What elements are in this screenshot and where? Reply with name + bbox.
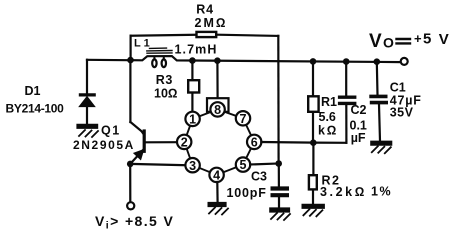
- svg-text:2: 2: [181, 136, 188, 150]
- inductor L1: [147, 48, 172, 67]
- svg-text:3: 3: [189, 159, 196, 173]
- ground below C3: [269, 210, 290, 220]
- pin 5: [236, 157, 250, 172]
- label Vi > +8.5 V: [95, 213, 174, 232]
- wire main top rail from D1 corner to output terminal: [87, 56, 401, 62]
- wire R4 loop top left: [131, 34, 196, 37]
- pin 2: [177, 135, 191, 150]
- svg-text:µF: µF: [351, 131, 366, 145]
- value 3.2k ohm 1%: [320, 184, 392, 199]
- svg-text:5: 5: [423, 31, 431, 48]
- label Q1: [101, 124, 121, 138]
- pin 7: [236, 111, 250, 126]
- svg-text:Q1: Q1: [101, 124, 121, 138]
- svg-text:3.2kΩ: 3.2kΩ: [320, 185, 367, 199]
- svg-text:L 1: L 1: [134, 38, 150, 50]
- label L1: [134, 38, 150, 50]
- value 2M ohm: [195, 16, 228, 30]
- op-amp U1 ring: [184, 109, 254, 174]
- svg-text:V: V: [369, 31, 382, 52]
- wire emitter node down to Vi terminal: [129, 164, 131, 202]
- wire rail to R1: [312, 61, 314, 96]
- node A junction dot rail/R4/collector: [127, 57, 134, 64]
- pin 6: [247, 135, 261, 150]
- terminal Vi: [127, 202, 134, 209]
- pin 4: [209, 168, 223, 183]
- svg-text:C2: C2: [351, 103, 367, 117]
- wire node down to C3: [278, 164, 280, 187]
- value k ohm: [318, 123, 338, 137]
- diode D1: [79, 60, 96, 124]
- wire base to pin 2: [146, 141, 177, 143]
- svg-text:10Ω: 10Ω: [154, 87, 178, 101]
- capacitor C2: [338, 97, 357, 143]
- junction dot pin5/C3/R4 node: [275, 160, 282, 167]
- label D1: [25, 84, 41, 98]
- svg-text:1.7mH: 1.7mH: [175, 43, 218, 57]
- svg-text:C3: C3: [251, 169, 267, 183]
- label C2: [351, 103, 367, 117]
- wire node to R2: [312, 143, 314, 176]
- svg-text:4: 4: [213, 169, 220, 183]
- svg-text:35V: 35V: [390, 105, 414, 119]
- svg-text:6: 6: [251, 136, 258, 150]
- wire rail to C2: [345, 62, 347, 96]
- svg-text:R1: R1: [321, 95, 337, 109]
- svg-text:2MΩ: 2MΩ: [195, 16, 228, 30]
- resistor R4: [197, 32, 217, 37]
- junction dot rail/C1: [374, 58, 381, 65]
- op-amp U1 pin8 tab square: [207, 98, 229, 112]
- svg-text:1%: 1%: [371, 184, 392, 198]
- value 100pF: [227, 186, 267, 200]
- svg-text:5.6: 5.6: [319, 110, 336, 124]
- resistor R3: [188, 80, 199, 92]
- wire pin 5 to node: [250, 164, 279, 165]
- label R2: [322, 173, 341, 187]
- value 47uF: [390, 94, 422, 108]
- capacitor C3: [271, 189, 290, 208]
- value 5.6: [319, 110, 336, 124]
- svg-text:kΩ: kΩ: [318, 123, 338, 137]
- wire pin 4 to ground: [216, 182, 219, 203]
- ground below R2: [302, 206, 325, 216]
- pin 1: [185, 112, 199, 127]
- resistor R1: [308, 96, 318, 112]
- wire emitter node to pin 3: [130, 164, 186, 165]
- value 1.7mH: [175, 43, 218, 57]
- svg-text:100pF: 100pF: [227, 186, 267, 200]
- ground below C1: [370, 143, 392, 153]
- wire R4 loop left vertical: [130, 36, 132, 60]
- value 2N2905A: [73, 138, 135, 152]
- wire node to C2 bottom: [313, 142, 346, 144]
- svg-text:O: O: [383, 34, 394, 50]
- junction dot emitter node: [127, 161, 134, 168]
- svg-text:D1: D1: [25, 84, 41, 98]
- svg-text:7: 7: [240, 112, 247, 126]
- junction dot rail/R3: [189, 57, 196, 64]
- label VO = +5 V: [369, 31, 449, 52]
- ground below D1: [76, 126, 98, 137]
- wire R3 branch from rail: [191, 61, 193, 80]
- capacitor C1: [369, 96, 388, 141]
- pin 3: [185, 158, 199, 173]
- wire R4 loop top right: [217, 35, 278, 36]
- label C1: [390, 81, 406, 95]
- svg-text:R4: R4: [196, 2, 214, 16]
- svg-text:R3: R3: [156, 73, 173, 87]
- wire R2 to ground: [312, 190, 314, 204]
- transistor Q1: [130, 60, 144, 164]
- junction dot rail/pin8: [214, 57, 221, 64]
- wire pin 6 to R1/R2 node: [261, 141, 313, 144]
- resistor R2: [309, 175, 317, 189]
- svg-text:2N2905A: 2N2905A: [73, 138, 135, 152]
- wire R3 to pin 1: [191, 94, 193, 112]
- ground below pin 4: [208, 205, 229, 215]
- svg-text:BY214-100: BY214-100: [6, 101, 65, 115]
- wire rail to C1: [376, 62, 379, 95]
- label R4: [196, 2, 214, 16]
- label R1: [321, 95, 337, 109]
- terminal VO: [401, 58, 408, 65]
- value 0.1: [350, 118, 367, 132]
- svg-text:1: 1: [189, 113, 196, 127]
- junction dot rail/C2: [343, 58, 350, 65]
- svg-text:V: V: [439, 31, 449, 48]
- wire rail to pin 8: [216, 61, 218, 98]
- label C3: [251, 169, 267, 183]
- junction dot R1/R2/pin6 node: [310, 139, 317, 146]
- value 35V: [390, 105, 414, 119]
- pin 8: [210, 102, 224, 117]
- svg-text:+: +: [414, 31, 422, 46]
- svg-text:8: 8: [214, 103, 221, 117]
- value 10 ohm: [154, 87, 178, 101]
- wire R1 to node: [312, 112, 314, 142]
- value BY214-100: [6, 101, 65, 115]
- label R3: [156, 73, 173, 87]
- junction dot rail/R1: [310, 58, 317, 65]
- wire R4 loop right vertical down to node C3/pin5: [277, 36, 280, 164]
- svg-text:5: 5: [240, 158, 247, 172]
- svg-text:C1: C1: [390, 81, 406, 95]
- value uF: [351, 131, 366, 145]
